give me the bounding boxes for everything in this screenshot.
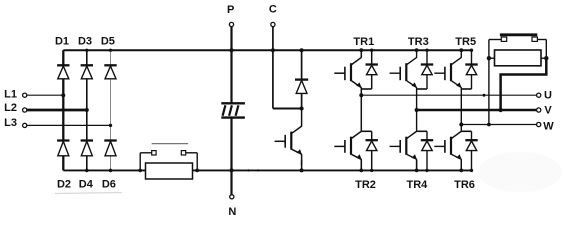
node K1 left xyxy=(138,169,142,173)
wire W phase line xyxy=(461,124,536,126)
node TR4 emitter bus junction xyxy=(415,169,419,173)
svg-text:P: P xyxy=(227,4,234,16)
diode VD6 freewheel of TR6 xyxy=(471,131,473,140)
wire phase column TR1 to midpoint xyxy=(360,89,362,95)
node artifact dots on N bus xyxy=(247,169,249,171)
wire R2 left terminal xyxy=(489,57,495,59)
wire rectifier column D5-D6 xyxy=(110,50,112,65)
diode VD3 freewheel of TR3 xyxy=(426,50,428,64)
wire rectifier column D1-D2 xyxy=(62,50,64,65)
svg-text:D6: D6 xyxy=(102,178,116,190)
wire rectifier column D3-D4 xyxy=(86,50,88,65)
node phase midpoint TR1/TR2 xyxy=(359,93,363,97)
node TR2 emitter bus junction xyxy=(359,169,363,173)
diode D6 xyxy=(104,139,116,141)
node U line artifact dot xyxy=(483,94,486,97)
svg-text:TR6: TR6 xyxy=(454,179,475,191)
contact K1 bypass xyxy=(139,153,141,171)
transistor V7 brake chopper IGBT xyxy=(292,126,302,133)
terminal W xyxy=(537,122,541,126)
node L3-D5 junction xyxy=(109,124,112,127)
svg-text:D1: D1 xyxy=(55,36,69,48)
diode VD4 freewheel of TR4 xyxy=(426,131,428,140)
node VD3 bus junction xyxy=(425,49,428,52)
resistor R1 charging xyxy=(146,163,193,179)
wire TR4 collector bracket xyxy=(417,130,427,132)
diode D7 brake freewheel xyxy=(295,78,308,80)
node D5 bus junction xyxy=(109,49,112,52)
svg-text:U: U xyxy=(544,90,552,102)
wire L1 line xyxy=(27,94,63,96)
node D4 bus junction xyxy=(85,169,89,173)
wire midpoint to TR2 xyxy=(360,95,362,131)
node phase midpoint TR3/TR4 xyxy=(415,108,419,112)
wire TR2 emitter lead xyxy=(360,160,362,170)
node brake emitter bus junction xyxy=(300,168,304,172)
wire TR6 collector bracket xyxy=(461,130,471,132)
wire capacitor to N bus xyxy=(230,118,232,171)
svg-text:D2: D2 xyxy=(57,178,71,190)
wire TR6 emitter lead xyxy=(460,160,462,170)
node K1 right xyxy=(195,169,199,173)
node VD6 bus junction xyxy=(470,169,473,172)
node thick path to V junction xyxy=(498,108,502,112)
wire P lead xyxy=(230,27,232,51)
wire top DC bus P rail xyxy=(63,49,471,51)
node P bus junction xyxy=(230,48,234,52)
wire brake collector lead xyxy=(301,109,303,127)
capacitor C1 DC link xyxy=(221,102,245,104)
contact K2 xyxy=(500,33,537,36)
diode VD1 freewheel of TR1 xyxy=(371,50,373,64)
wire TR3 emitter bracket xyxy=(417,88,427,90)
terminal V xyxy=(537,108,541,112)
diode VD2 freewheel of TR2 xyxy=(371,131,373,140)
wire U phase line xyxy=(361,94,536,96)
node VD2 bus junction xyxy=(370,169,373,172)
transistor TR6 IGBT xyxy=(452,131,462,138)
svg-text:TR4: TR4 xyxy=(407,179,429,191)
wire L2 line xyxy=(27,109,87,112)
diode D4 xyxy=(81,139,93,141)
wire R2 right terminal xyxy=(541,57,546,59)
transistor TR4 IGBT xyxy=(407,131,417,138)
node R2 right terminal xyxy=(544,56,548,60)
svg-text:TR1: TR1 xyxy=(353,36,374,48)
svg-text:L1: L1 xyxy=(4,88,17,100)
diode VD5 freewheel of TR5 xyxy=(471,50,473,64)
node TR6 emitter bus junction xyxy=(459,169,463,173)
svg-text:TR3: TR3 xyxy=(408,36,429,48)
transistor TR2 IGBT xyxy=(352,131,362,138)
node L2-D3 junction xyxy=(85,108,89,112)
node phase midpoint TR5/TR6 xyxy=(459,123,463,127)
svg-text:N: N xyxy=(228,206,236,218)
wire L3 line xyxy=(27,124,111,126)
wire midpoint to TR4 xyxy=(416,110,418,131)
node TR5 collector bus junction xyxy=(459,48,463,52)
node L1-D1 junction xyxy=(61,93,65,97)
svg-text:D5: D5 xyxy=(101,36,115,48)
terminal N xyxy=(230,195,234,199)
wire brake diode lead xyxy=(301,50,303,79)
wire midpoint to TR6 xyxy=(460,125,462,132)
svg-text:TR2: TR2 xyxy=(355,179,376,191)
wire TR2 collector bracket xyxy=(361,130,371,132)
svg-text:D3: D3 xyxy=(78,36,92,48)
wire bottom DC bus N rail xyxy=(63,169,471,171)
wire TR4 emitter lead xyxy=(416,160,418,170)
wire unit left lead xyxy=(488,40,490,125)
node VD1 bus junction xyxy=(370,49,373,52)
node TR3 collector bus junction xyxy=(415,48,419,52)
svg-text:L3: L3 xyxy=(4,117,17,129)
terminal U xyxy=(537,93,541,97)
wire C branch horizontal xyxy=(273,108,302,110)
diode D2 xyxy=(57,139,69,141)
svg-text:W: W xyxy=(543,120,554,132)
svg-text:TR5: TR5 xyxy=(455,36,476,48)
node C bus junction xyxy=(271,48,275,52)
wire unit right to V thick path xyxy=(501,58,547,110)
node brake collector junction xyxy=(300,107,304,111)
svg-text:L2: L2 xyxy=(4,102,17,114)
wire V phase line xyxy=(417,109,537,112)
svg-text:C: C xyxy=(269,4,277,16)
node VD4 bus junction xyxy=(425,169,428,172)
svg-text:V: V xyxy=(544,105,552,117)
node unit left to W junction xyxy=(487,123,491,127)
node VD5 bus junction xyxy=(470,49,473,52)
wire C lead xyxy=(272,27,274,51)
wire brake emitter lead xyxy=(301,160,303,170)
node TR1 collector bus junction xyxy=(359,48,363,52)
resistor R2 braking xyxy=(495,50,542,66)
node brake diode bus junction xyxy=(300,48,304,52)
node R2 left terminal xyxy=(487,56,491,60)
wire bus to capacitor xyxy=(230,50,232,103)
svg-text:D4: D4 xyxy=(79,178,94,190)
wire brake diode anode lead xyxy=(301,93,303,108)
wire N lead xyxy=(230,170,232,194)
node D6 bus junction xyxy=(109,169,113,173)
smudge marks (decorative) xyxy=(55,193,122,194)
wire phase column TR3 to midpoint xyxy=(416,89,418,110)
wire phase column TR5 to midpoint xyxy=(460,89,462,125)
wire TR1 emitter bracket xyxy=(361,88,371,90)
node N bus junction xyxy=(230,168,234,172)
wire unit right lead xyxy=(545,40,547,59)
wire TR5 emitter bracket xyxy=(461,88,471,90)
node D3 bus junction xyxy=(85,49,88,52)
wire C branch down xyxy=(272,50,274,108)
